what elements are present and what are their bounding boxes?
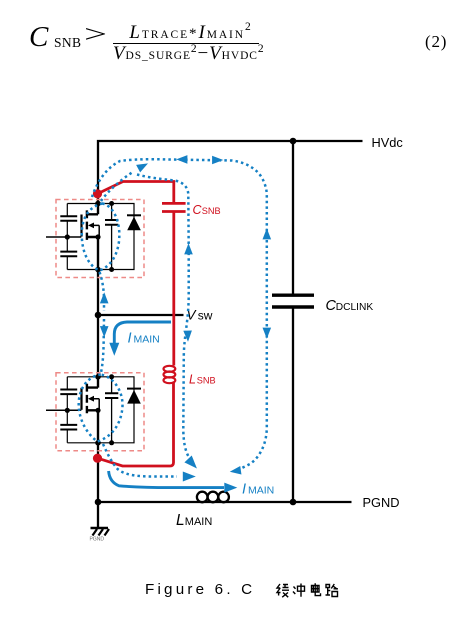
- wire: left rail between Vsw node and Q2 drain: [97, 315, 99, 377]
- Q1 dashed parasitic boundary box: [56, 200, 144, 278]
- capacitor Cgd Q1: [60, 216, 77, 221]
- wire: left rail between Q1 source and Vsw node: [97, 270, 99, 316]
- current loop: inner dotted arc along CSNB/LSNB branch: [137, 175, 189, 457]
- capacitor Cgs Q1: [60, 252, 77, 257]
- wire: left rail below Q2 source to PGND rail: [97, 443, 99, 503]
- arrow right on top arc: [212, 156, 223, 165]
- node: PGND rail right junction dot: [290, 499, 297, 506]
- svg-text:SNB: SNB: [197, 376, 216, 386]
- wire: red snubber top trace (Q1 drain to CSNB): [98, 182, 174, 204]
- svg-text:HVdc: HVdc: [372, 135, 404, 150]
- arrow up on rail above Vsw: [100, 292, 109, 303]
- svg-text:I: I: [242, 481, 246, 497]
- svg-text:MAIN: MAIN: [248, 484, 274, 496]
- transistor Q1 cell (high-side MOSFET with parasitics): [46, 200, 144, 278]
- node: red junction dot at Q1 drain: [93, 189, 102, 198]
- node: Q1 Cds top dot: [109, 201, 114, 206]
- ground PGND symbol: [90, 503, 110, 543]
- arrow up beside CSNB: [184, 243, 193, 254]
- hanzi 电: [312, 583, 321, 595]
- inductor LMAIN (coil on PGND rail): [197, 492, 229, 503]
- current loop: dotted link Vsw to Q2 cell: [101, 319, 104, 374]
- wire: left rail top segment (HVdc corner down to Q1 drain): [97, 140, 99, 204]
- current loop: Q1 cell exit arc: [101, 173, 132, 202]
- node: Q2 source rail dot: [95, 440, 101, 446]
- current loop: dotted oval through Q2 cell: [79, 375, 123, 442]
- wire: right rail upper segment: [292, 141, 294, 295]
- arrow down beside LSNB: [183, 330, 192, 341]
- svg-text:I: I: [128, 331, 132, 347]
- transistor Q2 cell (low-side MOSFET with parasitics): [46, 373, 144, 451]
- arrow left on top arc: [176, 155, 187, 164]
- hanzi 缓: [277, 584, 289, 597]
- node: red junction dot at Q2 source: [93, 454, 102, 463]
- node: Q1 Cds bottom dot: [109, 267, 114, 272]
- equation (2): C_SNB > (L_TRACE*I_MAIN^2)/(V_DS_SURGE^2 - V_HVDC^2): [29, 21, 48, 54]
- arrow left at outer loop bottom: [229, 466, 241, 476]
- MOSFET Q1 symbol: [82, 203, 101, 271]
- node: Q2 Cds bottom dot: [109, 440, 114, 445]
- capacitor Cgs Q2: [60, 425, 77, 430]
- wire: HVdc top rail: [99, 140, 363, 142]
- current loop: outer dotted arc (HVdc/CDCLINK loop): [92, 159, 267, 469]
- wire: Q1 gate lead: [46, 236, 81, 238]
- wire: PGND bottom rail: [98, 501, 352, 503]
- node: HVdc junction dot: [290, 138, 297, 145]
- node: Q2 drain rail dot: [95, 374, 101, 380]
- MOSFET Q2 symbol: [82, 376, 101, 444]
- svg-text:L: L: [176, 512, 185, 529]
- wire: right rail lower segment: [292, 307, 294, 502]
- node: Q1 gate junction dot: [65, 234, 70, 239]
- svg-text:SNB: SNB: [202, 206, 221, 216]
- capacitor Cds Q2: [105, 377, 118, 443]
- capacitor CDCLINK: [272, 295, 314, 307]
- capacitor Cgd Q2: [60, 390, 77, 395]
- wire: Vsw stub: [98, 314, 184, 316]
- IMAIN solid arrow at bottom: [109, 471, 275, 497]
- inductor LSNB: [164, 366, 176, 383]
- capacitor Cds Q1: [105, 204, 118, 270]
- node: PGND rail left junction dot: [95, 499, 102, 506]
- wire: red snubber bottom trace (LSNB to Q2 source): [98, 383, 174, 467]
- capacitor CSNB: [162, 203, 186, 211]
- arrow up-right at Q1 exit: [136, 160, 150, 173]
- Q1 cell outline: [67, 204, 134, 270]
- node: Q1 source rail dot: [95, 267, 101, 273]
- svg-text:L: L: [189, 373, 196, 387]
- diode D1 (Q1 body diode): [127, 215, 141, 230]
- Q2 dashed parasitic boundary box: [56, 373, 144, 451]
- wire: Q2 gate lead: [46, 409, 81, 411]
- arrowheads on dotted loops: [100, 155, 271, 481]
- svg-text:DCLINK: DCLINK: [336, 302, 374, 313]
- node: Q2 Cds top dot: [109, 374, 114, 379]
- diode D2 (Q2 body diode): [127, 389, 141, 404]
- caption: Figure 6. C 缓冲电路: [145, 581, 255, 598]
- svg-text:MAIN: MAIN: [134, 334, 160, 346]
- wire: red snubber mid trace (CSNB to LSNB): [172, 212, 175, 366]
- hanzi 冲: [293, 584, 305, 597]
- arrow right at Q2 exit bottom: [183, 472, 196, 482]
- arrow up on outer loop: [263, 228, 272, 239]
- current loop: dotted Q2 exit to bottom: [103, 444, 177, 477]
- node: Q1 drain rail dot: [95, 201, 101, 207]
- IMAIN solid arrow at Vsw: [109, 322, 171, 356]
- svg-text:MAIN: MAIN: [185, 516, 213, 528]
- svg-text:sw: sw: [198, 309, 213, 323]
- node: Q2 gate junction dot: [65, 408, 70, 413]
- arrow down-right at snubber loop bottom: [184, 456, 200, 472]
- Q2 cell outline: [67, 377, 134, 443]
- svg-text:PGND: PGND: [90, 537, 105, 543]
- arrow down on outer loop: [263, 328, 272, 339]
- svg-text:PGND: PGND: [363, 495, 400, 510]
- current loop: dotted link Q1 cell to Vsw: [100, 272, 105, 311]
- arrow down on rail below Vsw: [100, 326, 109, 337]
- hanzi 路: [326, 584, 339, 597]
- node: Vsw junction dot: [95, 312, 102, 319]
- current loop: dotted oval through Q1 cell: [82, 204, 120, 271]
